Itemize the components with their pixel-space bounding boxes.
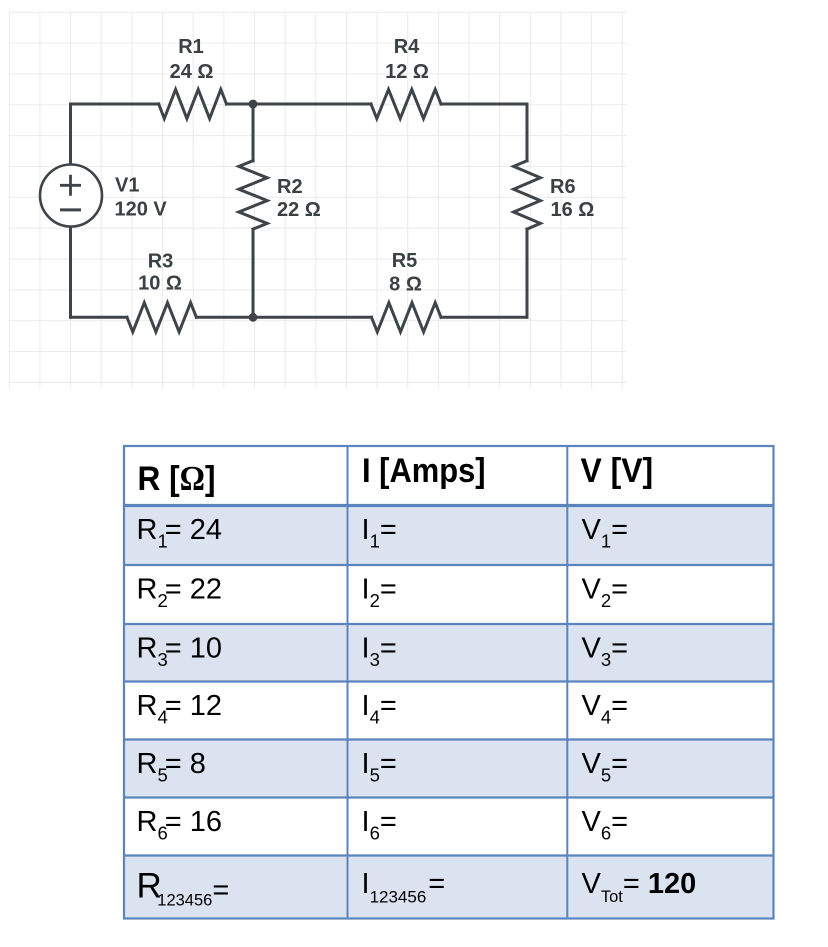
- svg-text:24 Ω: 24 Ω: [170, 61, 214, 83]
- svg-text:V1: V1: [115, 175, 139, 197]
- wire middle vertical lower: [252, 229, 255, 317]
- svg-text:R [Ω]: R [Ω]: [138, 460, 216, 498]
- svg-text:I2=: I2=: [362, 574, 397, 612]
- svg-text:I [Amps]: I [Amps]: [362, 452, 486, 490]
- wire top-middle horizontal: [227, 103, 372, 106]
- svg-text:R4= 12: R4= 12: [137, 690, 223, 728]
- results table grid lines: [124, 446, 774, 919]
- wire right vertical upper: [526, 104, 529, 161]
- node bottom junction: [249, 313, 258, 322]
- svg-text:R2: R2: [277, 176, 303, 198]
- table header row: [138, 452, 654, 498]
- resistor R3: [127, 303, 196, 332]
- svg-text:R5: R5: [392, 250, 418, 272]
- svg-text:I4=: I4=: [362, 690, 397, 728]
- svg-text:R6: R6: [550, 176, 576, 198]
- svg-text:R2= 22: R2= 22: [137, 574, 223, 612]
- wire top-left horizontal: [71, 103, 159, 106]
- svg-text:I5=: I5=: [362, 748, 397, 786]
- wire right vertical lower: [526, 229, 529, 317]
- svg-text:10 Ω: 10 Ω: [138, 273, 182, 295]
- svg-text:I3=: I3=: [362, 633, 397, 671]
- wire top-right horizontal: [441, 103, 527, 106]
- resistor R6: [514, 161, 541, 229]
- svg-text:R4: R4: [394, 36, 420, 58]
- svg-text:R3= 10: R3= 10: [137, 633, 223, 671]
- wire bottom-middle horizontal: [196, 316, 371, 319]
- wire left vertical lower: [69, 227, 72, 318]
- svg-text:120 V: 120 V: [115, 199, 168, 221]
- svg-text:V [V]: V [V]: [581, 452, 654, 490]
- svg-text:16 Ω: 16 Ω: [551, 199, 595, 221]
- svg-text:12 Ω: 12 Ω: [385, 61, 429, 83]
- svg-text:22 Ω: 22 Ω: [277, 199, 321, 221]
- voltage source V1: [40, 165, 102, 227]
- wire middle vertical upper: [252, 104, 255, 161]
- svg-text:R5= 8: R5= 8: [137, 748, 206, 786]
- svg-text:R3: R3: [148, 251, 174, 273]
- wire bottom-left horizontal: [71, 316, 128, 319]
- wire left vertical upper: [69, 104, 72, 165]
- results table banded row fills: [125, 506, 773, 918]
- svg-text:R1: R1: [178, 36, 204, 58]
- resistor R4: [371, 89, 441, 118]
- svg-text:I6=: I6=: [362, 806, 397, 844]
- resistor R5: [372, 303, 442, 332]
- table body rows: [137, 514, 697, 910]
- wire bottom-right horizontal: [441, 316, 527, 319]
- resistor R1: [159, 89, 227, 118]
- svg-text:I1=: I1=: [362, 514, 397, 552]
- svg-text:R6= 16: R6= 16: [137, 806, 223, 844]
- svg-text:R1= 24: R1= 24: [137, 514, 223, 552]
- svg-text:8 Ω: 8 Ω: [389, 274, 422, 296]
- resistor R2: [239, 161, 267, 229]
- node top junction: [249, 100, 258, 109]
